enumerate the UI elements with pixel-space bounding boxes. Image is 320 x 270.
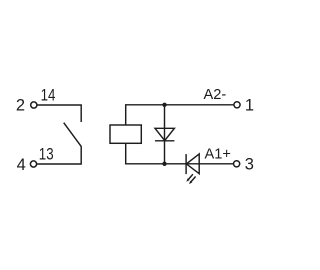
node junction bottom	[162, 162, 166, 166]
flyback diode V1	[155, 128, 174, 140]
svg-text:A2-: A2-	[204, 87, 227, 103]
wire coil branch top to terminal 1	[126, 105, 234, 125]
LED cathode bar	[185, 154, 187, 174]
LED emission arrow 2	[191, 177, 196, 182]
switch blade (NO contact)	[64, 123, 81, 147]
terminal 1	[234, 102, 240, 108]
flyback diode cathode bar	[155, 140, 174, 142]
LED emission arrow 1	[188, 174, 193, 179]
svg-text:A1+: A1+	[205, 146, 231, 162]
wire from terminal 2 to fixed contact	[37, 105, 81, 122]
LED triangle	[186, 154, 199, 174]
svg-text:3: 3	[245, 156, 254, 174]
svg-text:14: 14	[41, 86, 56, 104]
svg-text:1: 1	[245, 96, 254, 114]
svg-text:2: 2	[16, 97, 25, 115]
svg-text:13: 13	[39, 145, 54, 163]
node junction top	[162, 103, 166, 107]
flyback diode branch wire	[164, 105, 166, 164]
LED emission arrowhead 2	[189, 181, 192, 184]
relay coil K1	[110, 125, 141, 143]
LED emission arrowhead 1	[186, 178, 189, 181]
svg-text:4: 4	[17, 156, 26, 174]
terminal 4	[30, 161, 36, 167]
wire coil bottom to terminal 3	[126, 143, 234, 164]
terminal 3	[234, 161, 240, 167]
terminal 2	[31, 102, 37, 108]
wire from blade pivot to terminal 4	[37, 146, 81, 164]
